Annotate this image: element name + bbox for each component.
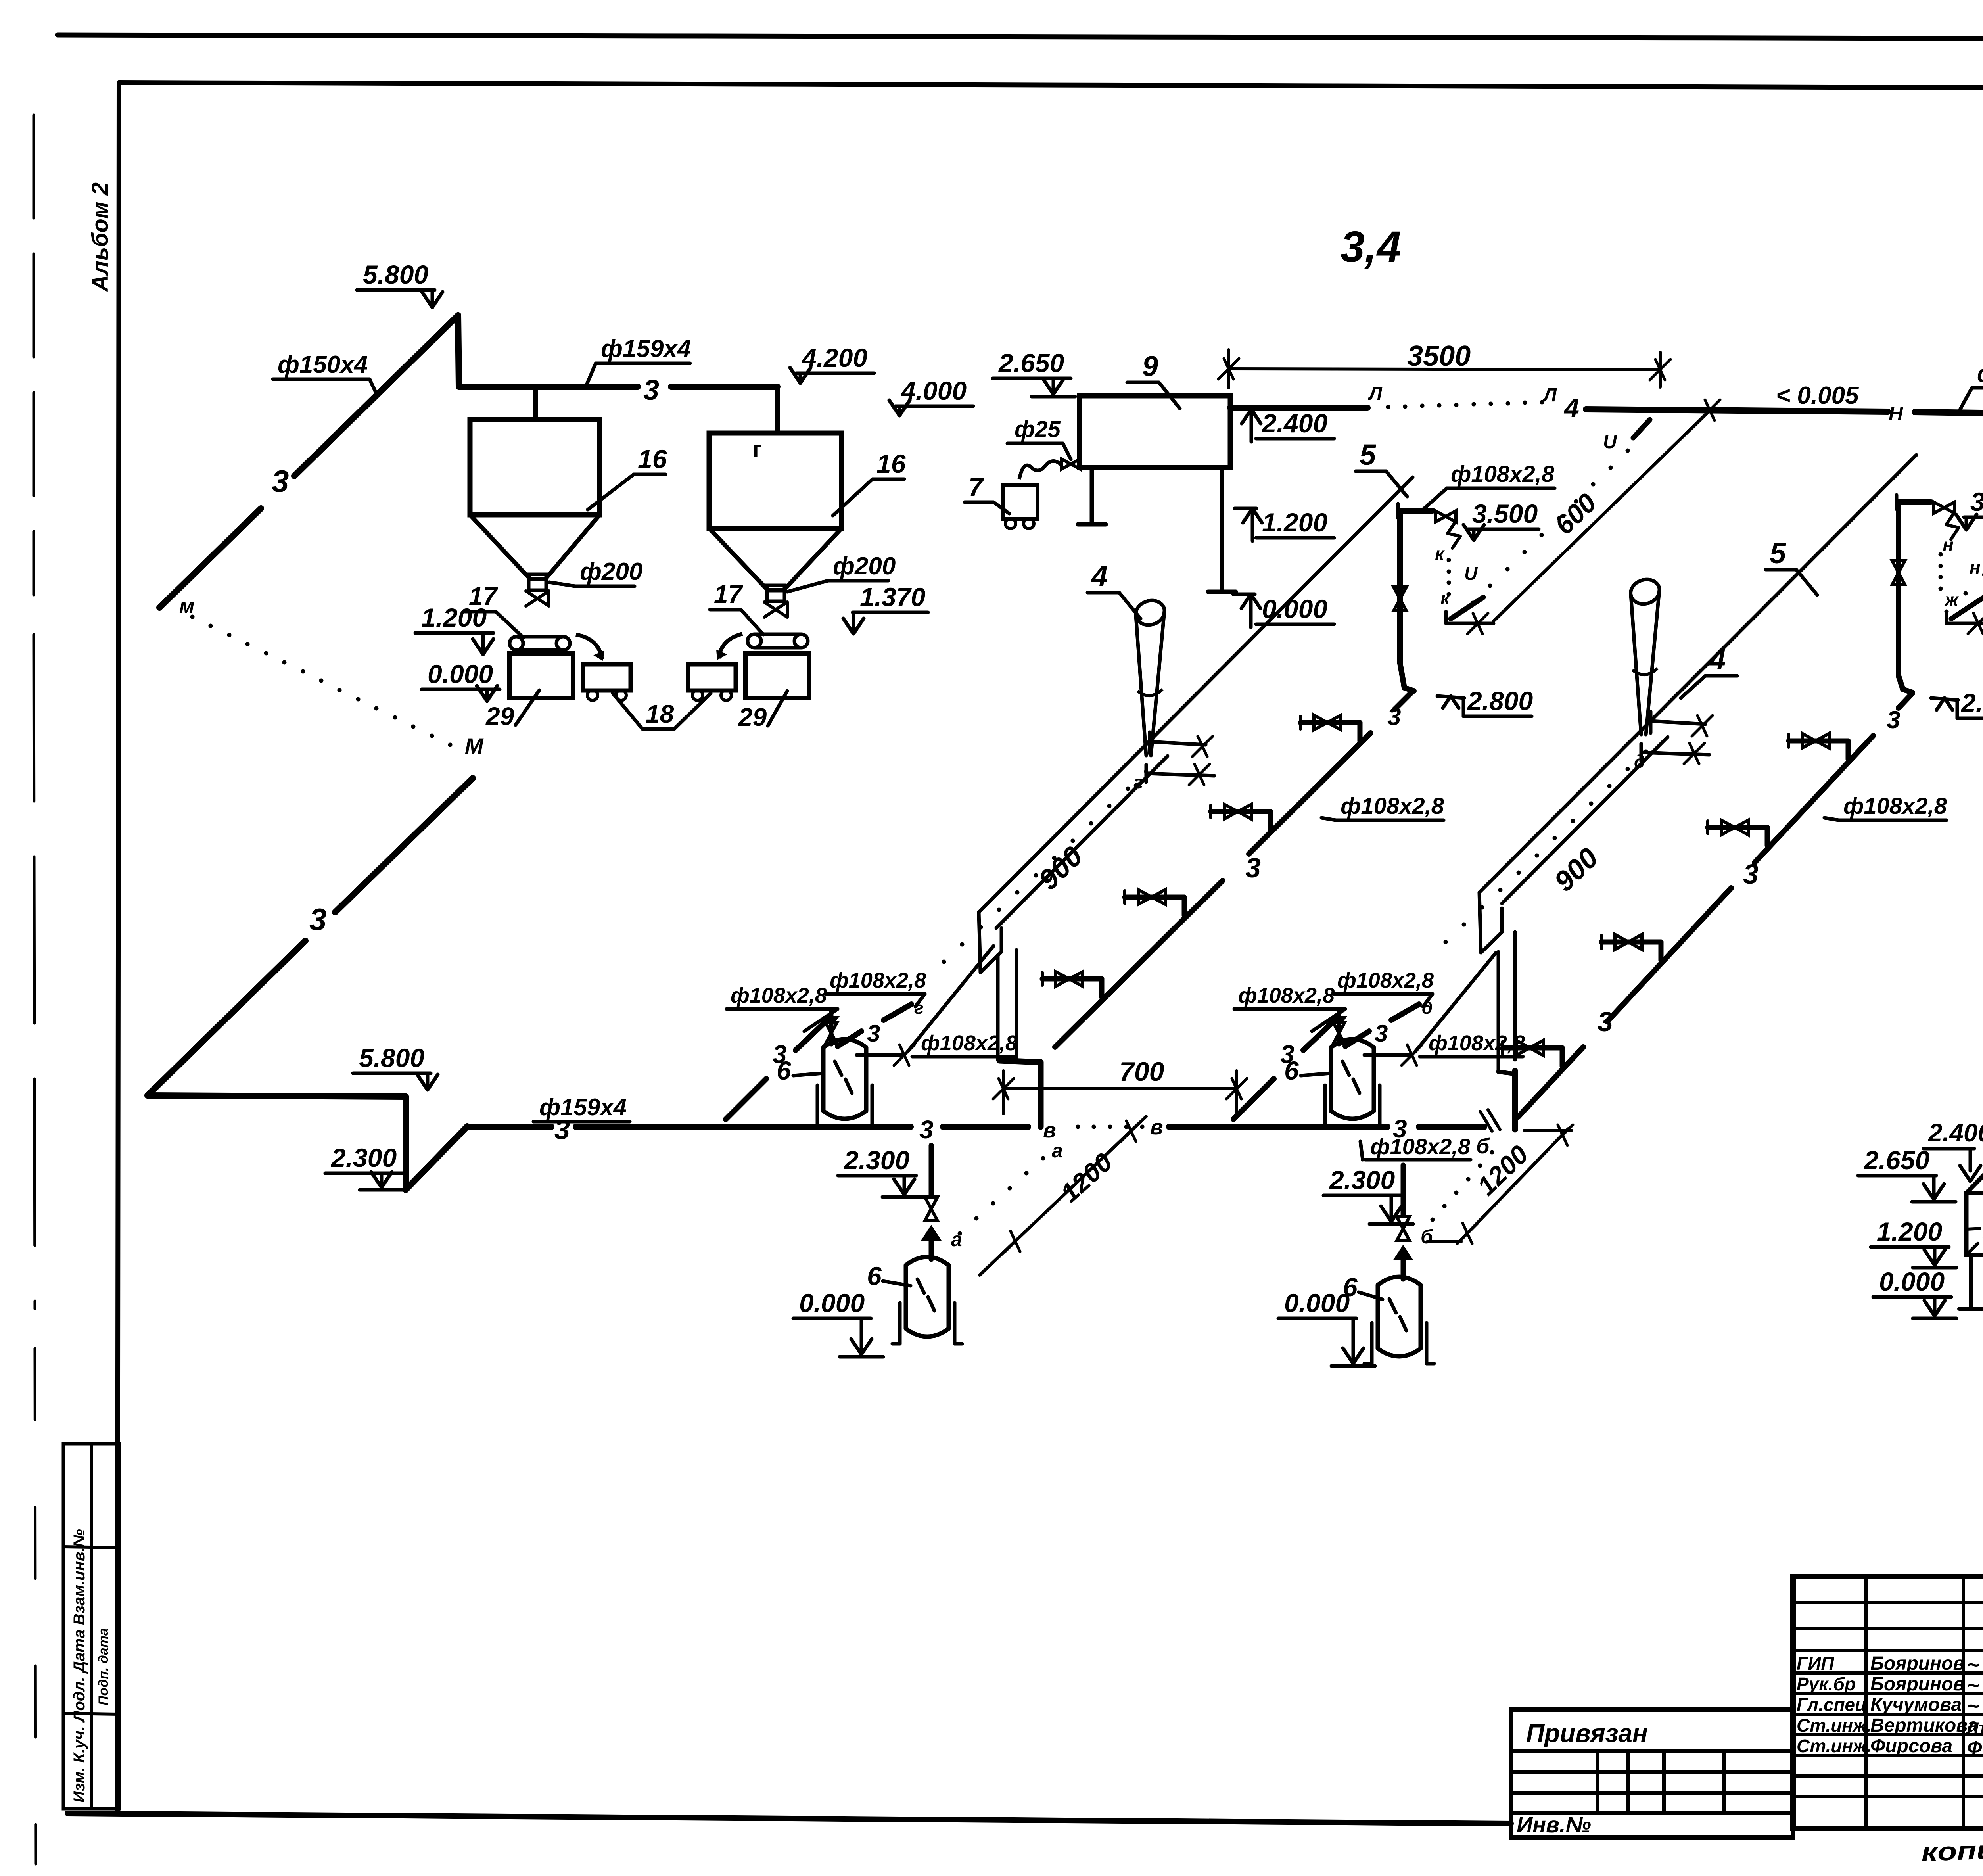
svg-text:ф108х2,8: ф108х2,8 <box>830 969 926 992</box>
svg-text:700: 700 <box>1119 1057 1164 1087</box>
svg-text:0.000: 0.000 <box>1262 594 1327 623</box>
svg-text:г: г <box>753 437 762 462</box>
pipe 3 long diagonal lower <box>148 941 305 1095</box>
svg-text:9: 9 <box>1142 351 1158 382</box>
suction branch A diagonal <box>726 1079 766 1119</box>
svg-text:ф108х2,8: ф108х2,8 <box>1977 361 1983 387</box>
svg-text:2.300: 2.300 <box>1329 1165 1395 1195</box>
svg-text:Фирсова: Фирсова <box>1870 1736 1952 1757</box>
svg-text:5.800: 5.800 <box>363 260 428 289</box>
svg-text:м: м <box>179 595 194 618</box>
svg-text:3: 3 <box>919 1115 934 1144</box>
funnel B ground tick <box>1641 752 1709 755</box>
svg-text:0.000: 0.000 <box>1284 1288 1350 1318</box>
ramp 5 band A upper edge <box>979 477 1413 912</box>
funnel 4 B <box>1628 576 1663 608</box>
svg-text:0.000: 0.000 <box>1879 1267 1945 1296</box>
svg-text:7: 7 <box>968 472 984 501</box>
svg-text:1.200: 1.200 <box>421 603 487 632</box>
svg-text:Бояринов: Бояринов <box>1870 1674 1965 1695</box>
branch pipe A right with valves <box>1394 691 1413 710</box>
svg-text:3: 3 <box>1245 852 1261 883</box>
svg-text:~: ~ <box>1967 1653 1979 1677</box>
svg-text:ф108х2,8: ф108х2,8 <box>1370 1134 1471 1159</box>
svg-text:г: г <box>1133 772 1143 792</box>
svg-text:Н: Н <box>1889 403 1903 425</box>
ramp 5 band B upper edge <box>1479 455 1916 892</box>
hourglass valve on riser A <box>1394 587 1406 611</box>
ramp A dotted centerline <box>1144 769 1149 774</box>
swish arrow no.2 <box>719 634 742 658</box>
svg-text:Кучумова: Кучумова <box>1870 1694 1962 1715</box>
ramp band A lower edge <box>996 756 1168 928</box>
conveyor 17 no.2 <box>748 634 761 648</box>
svg-text:Рук.бр: Рук.бр <box>1797 1674 1856 1694</box>
svg-text:29: 29 <box>485 702 514 731</box>
svg-text:Бояринов: Бояринов <box>1870 1653 1965 1674</box>
svg-text:1.200: 1.200 <box>1262 508 1327 537</box>
svg-text:3: 3 <box>1280 1040 1295 1068</box>
svg-text:3: 3 <box>867 1020 880 1047</box>
break mark <box>1480 1111 1492 1131</box>
svg-text:ф108х2,8: ф108х2,8 <box>921 1031 1017 1055</box>
svg-text:ф108х2,8: ф108х2,8 <box>1451 461 1555 487</box>
down branch valve stack A <box>929 1145 934 1196</box>
cart 18 no.1 <box>583 664 631 691</box>
hourglass valves riser B <box>1892 561 1905 585</box>
svg-text:ф159х4: ф159х4 <box>539 1094 627 1120</box>
valve on branch B <box>1789 739 1848 744</box>
bottom border line <box>67 1813 1511 1824</box>
valve on branch B <box>1708 825 1767 830</box>
Z step riser B to branch <box>1899 676 1912 692</box>
svg-text:0.000: 0.000 <box>799 1288 865 1318</box>
riser B top stub <box>1895 495 1899 509</box>
svg-text:Привязан: Привязан <box>1526 1719 1648 1747</box>
valve on branch A <box>1211 809 1270 814</box>
left outer dashed trim line <box>33 115 35 595</box>
pipe 3 bottom horizontal <box>148 1095 406 1097</box>
svg-text:ф108х2,8: ф108х2,8 <box>1337 969 1434 992</box>
dotted section line U-U system A <box>1626 449 1630 453</box>
ramp B dotted centerline <box>1644 750 1648 754</box>
tank 9 legs <box>1090 468 1094 524</box>
cube legs <box>1969 1255 1973 1309</box>
svg-text:ф108х2,8: ф108х2,8 <box>1238 984 1335 1007</box>
svg-text:0.000: 0.000 <box>428 659 493 689</box>
svg-text:29: 29 <box>738 703 767 731</box>
down branch valve stack B <box>1401 1165 1406 1216</box>
lower vessel 6 B <box>1376 1285 1380 1348</box>
ramp band A end closures <box>979 912 980 973</box>
box 29 no.1 <box>510 654 573 698</box>
branch 3 up from pump B <box>1345 1031 1369 1046</box>
ramp A pit walls <box>996 955 1000 1060</box>
hose to cart 7 <box>1019 461 1061 479</box>
border frame top outer line <box>58 35 1983 40</box>
svg-text:ф200: ф200 <box>833 552 896 580</box>
ramp B pit walls <box>1497 952 1500 1071</box>
pipe 3 top horizontal to hoppers <box>459 384 638 390</box>
discharge thin riser A <box>907 946 993 1052</box>
riser A vertical <box>1397 512 1403 663</box>
svg-text:3.500: 3.500 <box>1970 487 1983 516</box>
ramp A pit drain <box>999 1061 1041 1127</box>
dim 3500 line <box>1229 369 1660 370</box>
svg-text:в: в <box>1150 1115 1163 1139</box>
settling cube right <box>1966 1166 1983 1193</box>
svg-text:4: 4 <box>1091 560 1108 593</box>
svg-text:5: 5 <box>1770 537 1787 570</box>
ramp band B lower edge <box>1502 737 1668 903</box>
svg-text:в: в <box>1043 1118 1056 1142</box>
pipe 4 continues right <box>1586 409 1888 412</box>
valve on branch B <box>1503 1045 1562 1051</box>
svg-text:3: 3 <box>1743 859 1759 890</box>
valve on branch A <box>1042 976 1102 982</box>
svg-text:< 0.005: < 0.005 <box>1776 382 1859 409</box>
ramp band B end closures <box>1479 892 1481 953</box>
tank 9 body <box>1080 396 1230 468</box>
svg-text:U: U <box>1464 563 1478 584</box>
Z step riser A to branch <box>1400 663 1414 691</box>
section д ticks B <box>1651 721 1705 724</box>
pipe 3 upper diagonal <box>159 508 261 608</box>
svg-text:16: 16 <box>638 444 667 474</box>
svg-text:3: 3 <box>1887 706 1900 734</box>
svg-text:Изм. К.уч. Лодл. Дата Взам.инв: Изм. К.уч. Лодл. Дата Взам.инв.№ <box>71 1529 88 1803</box>
pump 6 vessel A on line <box>821 1047 826 1111</box>
svg-text:ф108х2,8: ф108х2,8 <box>731 984 827 1007</box>
hopper 16 no.1 spout <box>529 574 546 590</box>
svg-text:ф200: ф200 <box>580 558 642 585</box>
suction branch B diagonal <box>1233 1079 1274 1119</box>
svg-text:ф159х4: ф159х4 <box>601 335 691 363</box>
branch 3 up from pump A <box>838 1031 861 1046</box>
svg-text:U: U <box>1603 432 1617 453</box>
svg-text:3: 3 <box>272 464 289 499</box>
svg-text:Ф~: Ф~ <box>1967 1738 1983 1759</box>
svg-text:4: 4 <box>1563 393 1579 423</box>
svg-text:Ст.инж.: Ст.инж. <box>1797 1736 1872 1756</box>
svg-text:б: б <box>1476 1134 1490 1158</box>
svg-text:н: н <box>1970 557 1981 577</box>
svg-text:5: 5 <box>1360 438 1377 471</box>
svg-text:3: 3 <box>1375 1020 1388 1047</box>
svg-text:4: 4 <box>1709 643 1726 676</box>
svg-text:3.500: 3.500 <box>1472 499 1538 528</box>
lower vessel 6 A <box>904 1265 908 1329</box>
left border frame line <box>117 82 119 1813</box>
svg-text:16: 16 <box>876 449 906 478</box>
pipe 3 horizontal to pumps <box>467 1124 551 1130</box>
svg-text:н: н <box>1943 535 1954 555</box>
pipe 3 drop at peak <box>458 315 459 387</box>
riser B vertical <box>1896 503 1901 676</box>
swish arrow no.1 <box>576 635 602 659</box>
dim 700 <box>1003 1087 1237 1090</box>
hopper 16 no.2 spout <box>767 585 784 601</box>
svg-text:3: 3 <box>1598 1006 1613 1037</box>
svg-text:Альбом 2: Альбом 2 <box>87 182 113 292</box>
svg-text:3500: 3500 <box>1407 340 1471 372</box>
svg-text:3: 3 <box>773 1040 787 1068</box>
cart 7 left <box>1003 485 1038 519</box>
svg-text:~: ~ <box>1967 1695 1979 1718</box>
dotted section line Н-Н system B <box>1945 610 1949 614</box>
border frame inner top line <box>119 82 1983 89</box>
valve ф25 tank9 <box>1061 459 1080 469</box>
valve on branch B <box>1601 940 1661 945</box>
svg-text:1.200: 1.200 <box>1877 1217 1942 1246</box>
svg-text:2.650: 2.650 <box>1863 1145 1929 1175</box>
discharge stub A with X <box>857 1053 901 1057</box>
svg-text:2.800: 2.800 <box>1467 686 1533 715</box>
svg-text:к: к <box>1435 543 1445 564</box>
valve on branch A <box>1125 895 1184 900</box>
cart 18 no.2 <box>688 664 736 691</box>
title block main frame <box>1793 1577 1983 1828</box>
box 29 no.2 <box>746 654 809 698</box>
discharge stub B with X <box>1364 1053 1409 1057</box>
discharge thin riser B <box>1415 953 1496 1052</box>
svg-text:к: к <box>1440 588 1451 608</box>
svg-text:Ст.инж.: Ст.инж. <box>1797 1715 1872 1736</box>
svg-text:17: 17 <box>714 580 744 608</box>
funnel 4 A <box>1133 597 1168 629</box>
svg-text:2.400: 2.400 <box>1261 409 1327 438</box>
hopper 16 no.2 body <box>709 433 842 528</box>
svg-text:Л: Л <box>1542 385 1557 406</box>
svg-text:ф25: ф25 <box>1015 416 1061 442</box>
svg-text:3: 3 <box>309 902 326 937</box>
conveyor 17 no.1 <box>510 637 523 650</box>
svg-text:ГИП: ГИП <box>1797 1653 1834 1674</box>
svg-text:б: б <box>1421 1226 1434 1248</box>
svg-text:2.650: 2.650 <box>998 348 1064 378</box>
svg-text:2.300: 2.300 <box>330 1143 397 1172</box>
svg-text:18: 18 <box>646 700 674 728</box>
svg-text:1.370: 1.370 <box>860 582 925 612</box>
left stamp table <box>63 1444 119 1809</box>
svg-text:ЛъЪ: ЛъЪ <box>1966 1719 1983 1737</box>
svg-text:~: ~ <box>1967 1674 1979 1697</box>
svg-text:ф150х4: ф150х4 <box>278 351 368 378</box>
svg-text:М: М <box>465 733 484 758</box>
pipe 4 dotted section <box>1386 405 1390 409</box>
svg-text:Инв.№: Инв.№ <box>1517 1812 1591 1837</box>
continue horizontal to pump A <box>943 1124 1028 1130</box>
svg-text:ж: ж <box>1944 589 1959 610</box>
riser A top stub <box>1396 504 1400 518</box>
svg-text:Подп. дата: Подп. дата <box>96 1628 111 1705</box>
svg-text:2.400: 2.400 <box>1928 1118 1983 1147</box>
pipe 4 from tank 9 <box>1230 405 1367 411</box>
hopper 16 no.2 stub <box>775 387 780 433</box>
funnel A ground tick <box>1146 773 1214 776</box>
svg-text:ф108х2,8: ф108х2,8 <box>1843 793 1947 819</box>
svg-text:3: 3 <box>643 374 659 406</box>
svg-text:2.300: 2.300 <box>843 1145 909 1175</box>
branch stub U on pipe4 left <box>1633 420 1650 438</box>
svg-text:а: а <box>1052 1139 1063 1162</box>
stamp table Привязан <box>1511 1709 1793 1837</box>
svg-text:ф108х2,8: ф108х2,8 <box>1341 793 1444 819</box>
pipe dip under doorway <box>406 1097 467 1190</box>
svg-text:3,4: 3,4 <box>1341 223 1401 271</box>
pump 6 vessel B on line1 <box>1329 1047 1333 1111</box>
svg-text:2.800: 2.800 <box>1960 688 1983 717</box>
svg-text:Вертикова: Вертикова <box>1870 1715 1978 1736</box>
valve on branch A <box>1300 720 1360 725</box>
branch pipe B right with valves <box>1899 693 1912 708</box>
section г ticks A <box>1150 742 1206 745</box>
svg-text:Гл.спец: Гл.спец <box>1797 1694 1867 1715</box>
ramp B pit drain <box>1498 1072 1515 1074</box>
hopper 16 no.1 stub <box>533 387 538 420</box>
svg-text:а: а <box>951 1228 962 1251</box>
svg-text:3: 3 <box>1387 703 1401 731</box>
signature columns <box>1793 1601 1983 1604</box>
svg-text:Л: Л <box>1368 383 1383 404</box>
section line М dotted <box>190 615 195 619</box>
svg-text:5.800: 5.800 <box>359 1043 424 1072</box>
svg-text:ф108х2,8: ф108х2,8 <box>1429 1031 1525 1055</box>
svg-text:6: 6 <box>867 1261 882 1291</box>
hopper 16 no.1 body <box>470 420 600 515</box>
